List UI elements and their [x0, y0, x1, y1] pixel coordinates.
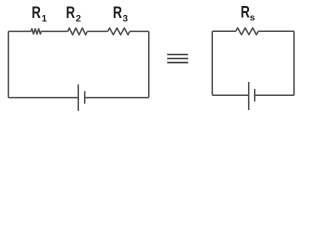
wire left circuit bottom-right segment [85, 97, 149, 99]
wire left circuit bottom-left segment [8, 97, 78, 99]
battery B1 short plate [84, 91, 86, 103]
wire between R1 and R2 [41, 30, 67, 32]
resistor R3 [108, 28, 130, 35]
svg-text:2: 2 [76, 13, 81, 24]
wire right circuit bottom-right segment [255, 94, 294, 96]
wire left circuit top-left segment [8, 30, 31, 32]
svg-text:R: R [66, 3, 75, 22]
battery B2 short plate [254, 89, 256, 102]
wire right circuit right side [293, 31, 295, 95]
battery B2 long plate [248, 82, 250, 110]
wire right circuit top-right segment [258, 30, 294, 32]
svg-text:1: 1 [42, 13, 48, 24]
wire left circuit right side [148, 31, 150, 97]
wire between R2 and R3 [87, 30, 108, 32]
equivalence symbol [167, 55, 188, 63]
svg-text:s: s [250, 13, 255, 24]
wire right circuit bottom-left segment [212, 94, 248, 96]
svg-text:R: R [32, 3, 41, 22]
resistor R2 [68, 28, 88, 35]
wire left circuit top-right segment [130, 30, 149, 32]
wire left circuit left side [7, 31, 9, 97]
svg-text:3: 3 [123, 13, 128, 24]
resistor R1 [31, 29, 41, 34]
resistor Rs [236, 28, 258, 35]
battery B1 long plate [77, 84, 79, 110]
wire right circuit top-left segment [212, 30, 236, 32]
wire right circuit left side [211, 31, 213, 95]
svg-text:R: R [241, 3, 250, 22]
svg-text:R: R [113, 3, 122, 22]
